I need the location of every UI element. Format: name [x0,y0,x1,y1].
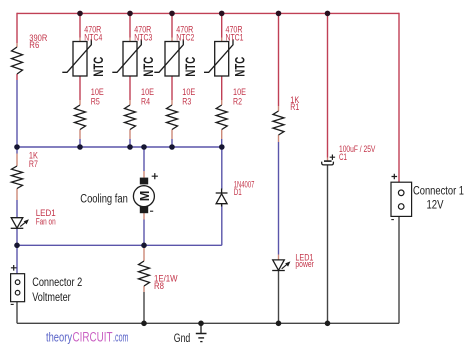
svg-text:12V: 12V [427,200,444,212]
wire NTC3 column [129,13,131,100]
svg-text:C1: C1 [339,152,347,162]
wire D1 column lower [221,205,223,246]
svg-text:R1: R1 [290,102,299,112]
junction dots node rail 1 [14,144,224,150]
wire right rail down to connector 1 [398,13,400,183]
wire R1 to LED1 power [278,142,280,255]
diode D1 [216,189,228,207]
wire left column top to R6 [16,13,18,80]
svg-text:Cooling fan: Cooling fan [80,194,128,206]
LED1 fan on [11,218,29,229]
svg-text:R4: R4 [141,96,150,106]
wire node rail 2 (blue bus y=245.3) [17,244,222,246]
resistor R5 [75,105,86,130]
svg-text:D1: D1 [234,187,242,197]
connector 1 (12V input) [391,174,412,220]
svg-text:R8: R8 [154,281,164,291]
wire bottom ground rail [17,322,399,324]
wire left column R6 to node rail 1 [16,80,18,147]
svg-text:Fan on: Fan on [36,216,56,226]
svg-text:NTC3: NTC3 [134,33,152,43]
svg-text:R6: R6 [29,40,39,50]
thermistor NTC4 [62,39,91,76]
wire C1 to ground rail [327,165,329,323]
svg-text:R3: R3 [182,96,191,106]
resistor R1 [273,111,284,135]
wire fan column upper [143,147,145,171]
wire pin stubs R6 [16,43,18,47]
svg-text:NTC: NTC [183,57,198,77]
wire rail2 to connector 2 [16,245,18,273]
svg-text:NTC: NTC [233,57,248,77]
wire rail1 to R7 [16,147,18,154]
svg-text:R7: R7 [29,159,38,169]
wire node rail 1 (blue bus y=146.5) [17,146,222,148]
svg-text:Connector 2: Connector 2 [32,277,82,289]
thermistor NTC2 [154,39,183,76]
wire connector 1 to ground rail [398,216,400,323]
wire LED1 power to ground rail [278,271,280,324]
wire connector 2 to ground rail [16,302,18,324]
resistor R6 [12,47,23,74]
thermistor NTC1 [204,39,233,76]
resistor R4 [125,105,136,130]
svg-text:NTC2: NTC2 [176,33,194,43]
svg-text:Voltmeter: Voltmeter [32,292,71,304]
wire D1 column upper [221,147,223,190]
svg-text:R5: R5 [91,96,100,106]
svg-text:NTC: NTC [141,57,156,77]
wire R8 pin stubs [143,246,145,292]
svg-text:NTC1: NTC1 [226,33,244,43]
svg-text:.com: .com [113,329,129,344]
wire NTC2 column [171,13,173,100]
ground symbol [196,323,207,341]
connector 2 (voltmeter) [11,265,25,304]
wire R7 to LED1 fan on [16,200,18,218]
svg-text:CIRCUIT: CIRCUIT [73,329,113,344]
junction dots node rail 2 [14,243,147,249]
svg-text:Connector 1: Connector 1 [413,186,464,198]
svg-text:NTC: NTC [91,57,106,77]
thermistor NTC3 [112,39,141,76]
junction dots top rail [77,11,330,17]
wire NTC1 column [221,13,223,100]
wire R8 to ground rail [143,292,145,323]
svg-text:NTC4: NTC4 [84,33,102,43]
motor M1 cooling fan [133,173,158,213]
svg-text:M: M [138,191,152,202]
svg-text:theory: theory [46,329,72,344]
resistor R8 [139,261,150,286]
wire R7 pin stubs [16,154,18,201]
LED1 power [272,260,290,271]
resistor R2 [216,105,227,130]
svg-text:R2: R2 [233,96,242,106]
wire LED1 fan on to rail 2 [16,228,18,245]
wire top +12V rail [17,12,399,14]
resistor R7 [12,166,23,189]
wire fan column lower [143,213,145,220]
wire R1 column top [278,13,280,106]
capacitor C1 [322,155,335,165]
svg-text:power: power [295,259,314,269]
wire NTC4 column [79,13,81,100]
junction dots ground rail [141,321,330,327]
resistor R3 [167,105,178,130]
svg-text:Gnd: Gnd [174,333,191,345]
wire C1 column top [327,13,329,158]
